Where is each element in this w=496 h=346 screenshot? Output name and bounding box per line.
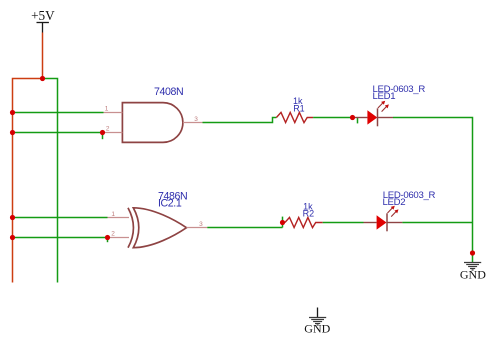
svg-text:GND: GND [460,268,486,282]
wire stub below LED1 junction [357,118,359,124]
triangle [367,110,377,124]
+5V power symbol P1 [31,8,55,32]
pin 3 stub [187,227,208,229]
wire to AND pin 1 [13,112,104,114]
pin 2 stub [108,237,130,239]
ground symbol GND (right) [464,263,481,271]
light arrow 2 [382,107,387,112]
svg-text:1: 1 [111,211,115,218]
wire stub above R2 junction [282,217,284,228]
svg-text:+5V: +5V [31,8,55,23]
anode lead [353,117,368,119]
junction at right GND [470,250,475,255]
svg-text:GND: GND [304,322,330,336]
svg-text:R1: R1 [293,103,305,113]
anode lead [364,222,377,224]
junction rail at XOR pin2 row [10,235,15,240]
pin 2 stub [103,132,123,134]
svg-text:1: 1 [105,106,109,113]
svg-text:3: 3 [199,221,203,228]
pin 3 stub [183,122,203,124]
junction at AND pin 2 [100,130,105,135]
junction at +5V branch [40,76,45,81]
triangle [377,215,387,229]
junction rail at XOR pin1 row [10,215,15,220]
light arrow 2 [391,212,396,217]
input curve [128,208,133,248]
wire stub below XOR pin2 junction [107,238,109,243]
svg-text:7408N: 7408N [154,86,183,98]
wire stub below AND pin2 junction [102,133,104,140]
resistor R1 1k [276,96,313,123]
cathode lead [378,117,394,119]
LED2 LED-0603_R [364,190,436,231]
svg-text:IC2.1: IC2.1 [158,198,182,210]
light arrow 1 [378,103,383,108]
resistor R2 1k [285,202,323,228]
svg-text:2: 2 [111,230,115,237]
XOR gate IC2.1 7486N [108,191,208,248]
pin 1 stub [104,112,123,114]
junction at R2 [280,220,285,225]
wire to AND pin 2 [13,132,103,134]
svg-text:R2: R2 [303,209,315,219]
svg-text:2: 2 [106,126,110,133]
wire red branch left and down rail [13,79,43,283]
wire into GND symbol [472,253,474,263]
wire to XOR pin 1 [13,217,108,219]
wire LED2 to right rail [402,222,472,224]
pin 1 stub [108,217,130,219]
wire XOR output to R2 [207,227,282,229]
light arrow 1 [388,208,393,213]
svg-text:3: 3 [194,116,198,123]
junction at XOR pin 2 [105,235,110,240]
junction rail at AND pin1 row [10,110,15,115]
wire green branch right and down rail [43,79,58,283]
cathode bar [386,213,388,231]
cathode bar [377,108,379,126]
wire +5V vertical drop (red net) [42,33,44,79]
junction rail at AND pin2 row [10,130,15,135]
wire AND output to R1 [203,118,277,123]
ground symbol GND (bottom) [309,308,326,326]
wire to XOR pin 2 [13,237,108,239]
cathode lead [387,222,402,224]
AND gate IC1 7408N [103,86,203,142]
svg-text:LED2: LED2 [383,197,406,208]
junction before LED1 [350,115,355,120]
svg-text:LED1: LED1 [373,91,396,102]
wire R1 to LED1 [313,117,352,119]
wire R2 to LED2 [323,222,364,224]
LED1 LED-0603_R [353,84,426,126]
wire LED1 to right rail [393,118,473,254]
